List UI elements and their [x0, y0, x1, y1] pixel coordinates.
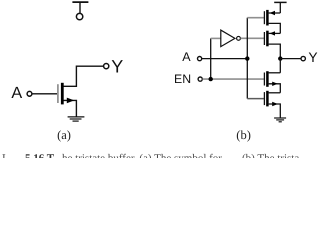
svg-text:A: A: [182, 50, 191, 64]
svg-text:A: A: [11, 84, 22, 102]
svg-text:I5.16 The tristate buffer. (a): I5.16 The tristate buffer. (a) The symbo…: [2, 153, 299, 158]
svg-text:Y: Y: [111, 57, 123, 77]
svg-text:Y: Y: [308, 50, 317, 65]
svg-text:(b): (b): [236, 128, 251, 142]
svg-text:(a): (a): [57, 128, 71, 142]
svg-text:EN: EN: [174, 72, 191, 86]
